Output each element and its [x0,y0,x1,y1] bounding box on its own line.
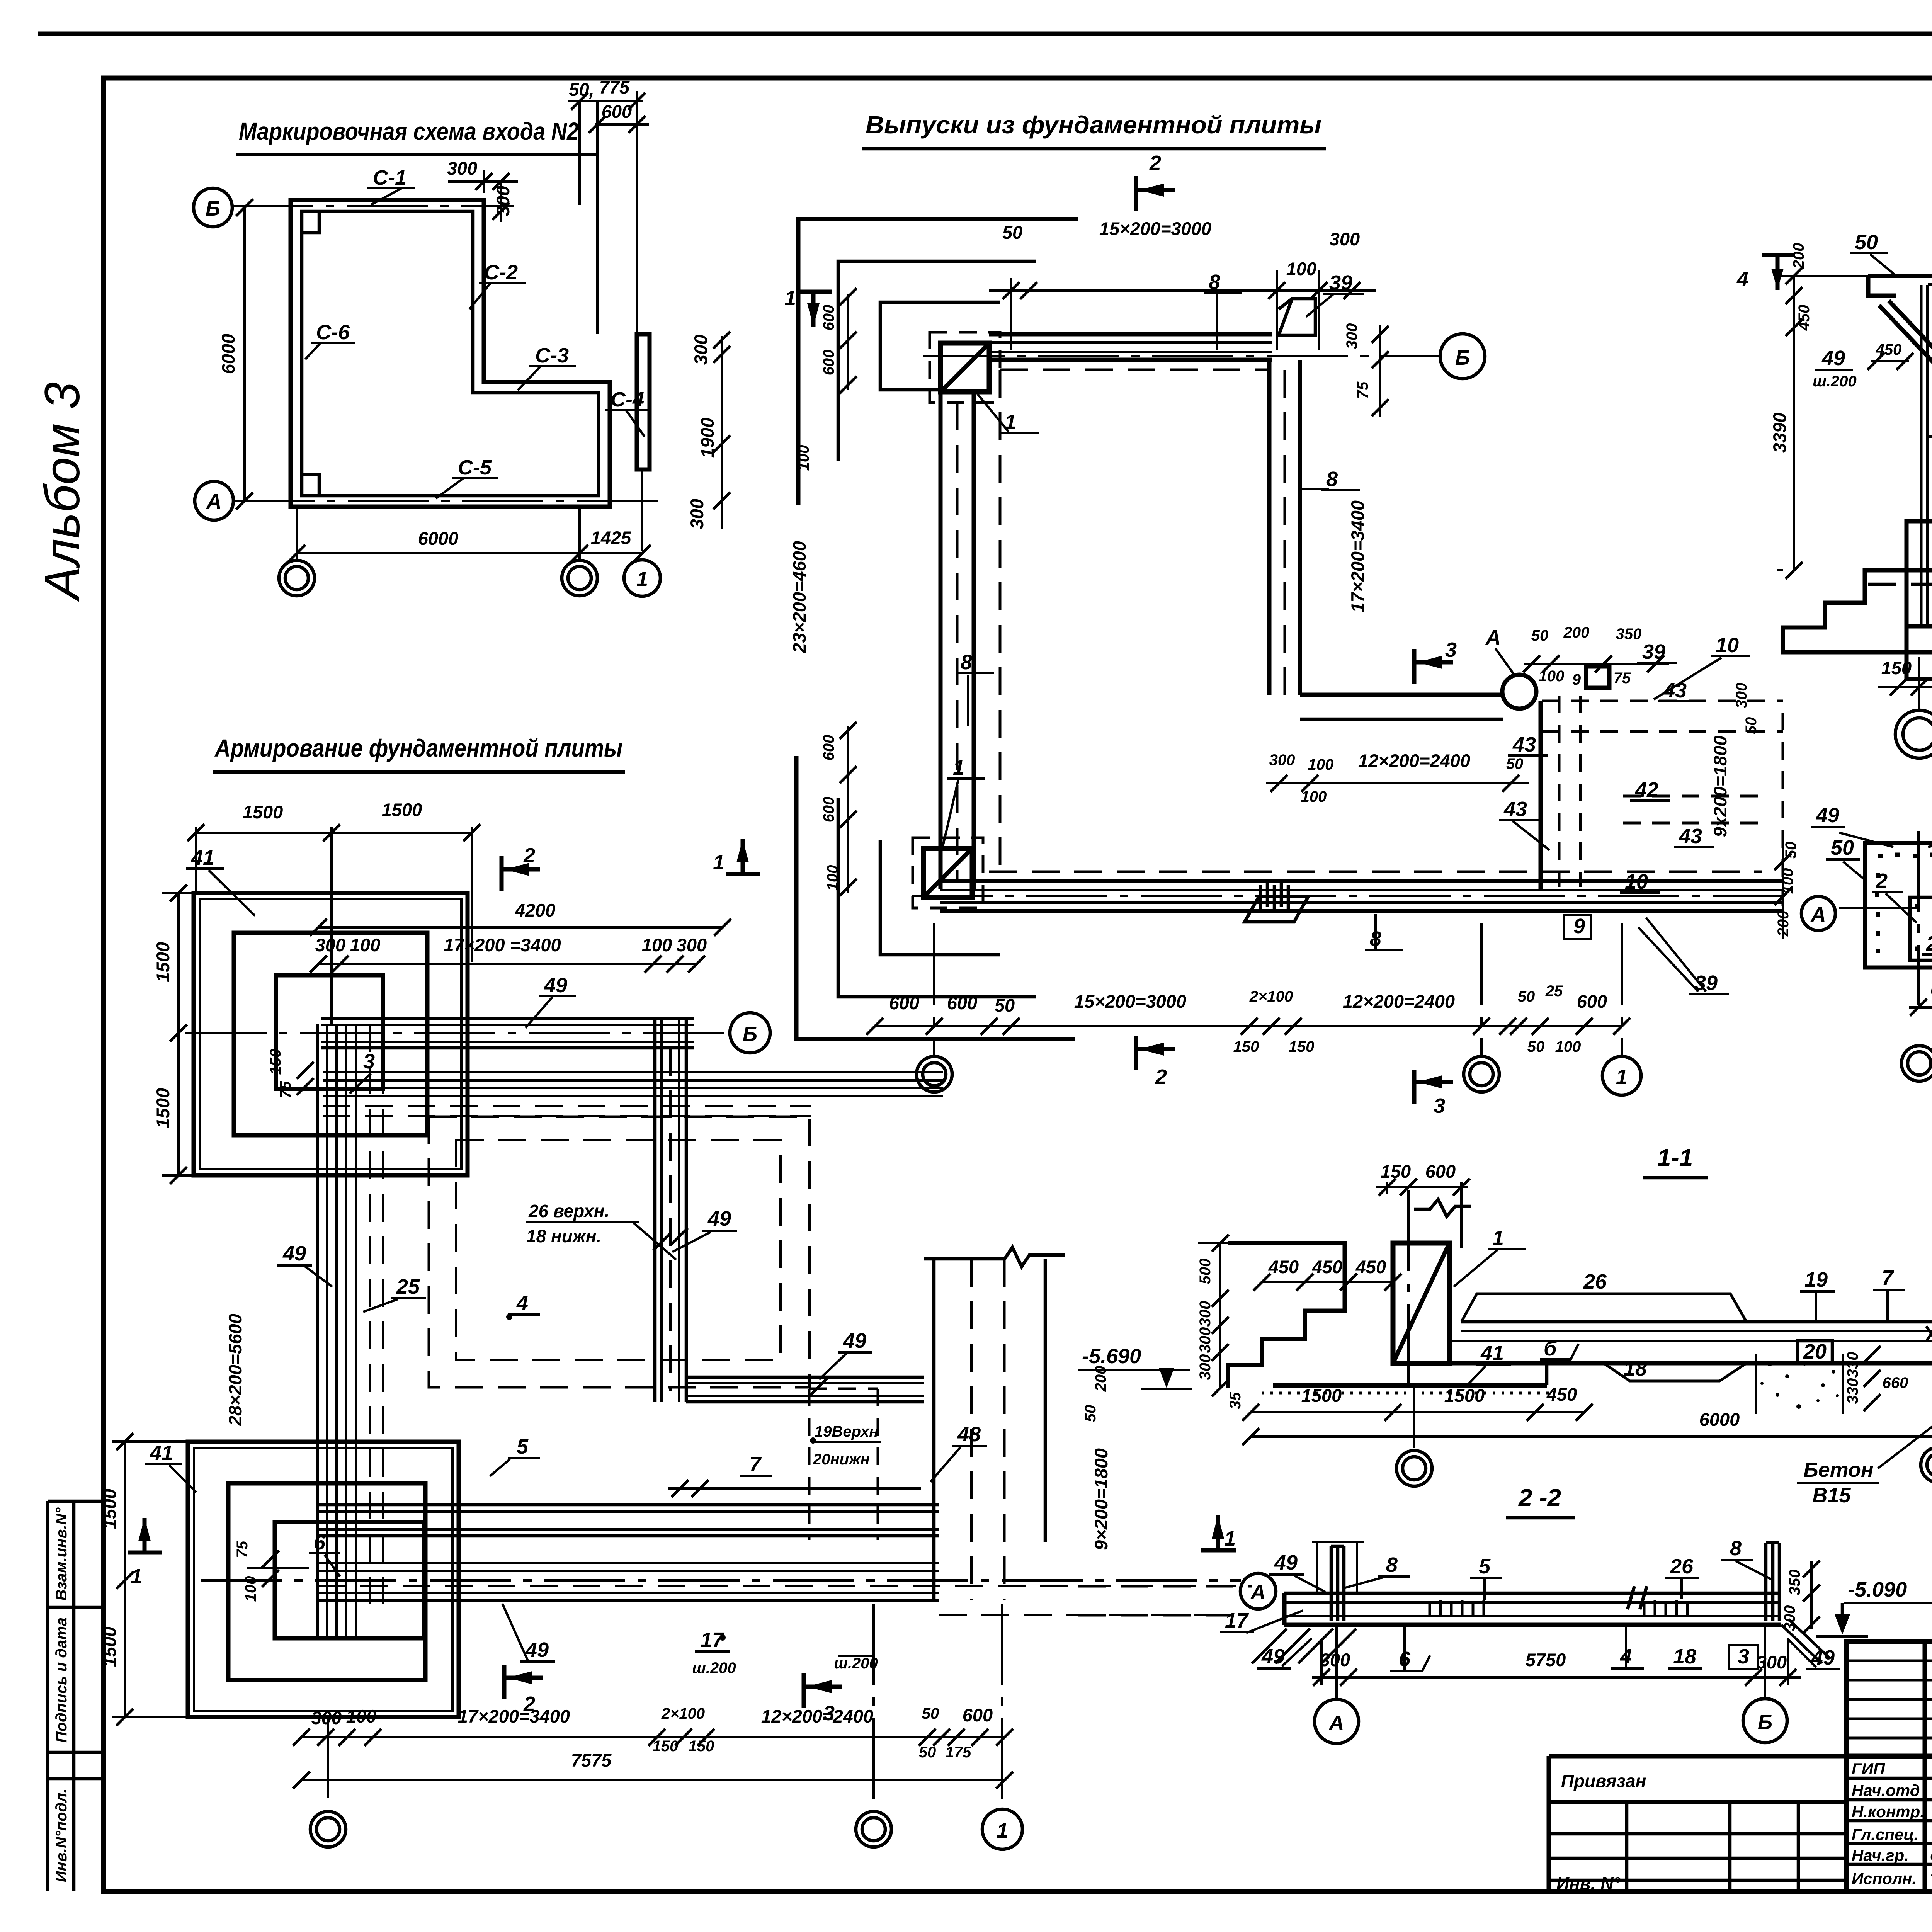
svg-text:50: 50 [922,1705,939,1722]
svg-text:49: 49 [1821,347,1845,370]
axis А horizontal [201,1579,1241,1582]
svg-text:75: 75 [234,1541,251,1558]
svg-text:1425: 1425 [591,527,631,548]
svg-text:50: 50 [1082,1405,1099,1422]
svg-text:300: 300 [1320,1650,1350,1670]
svg-text:75: 75 [1614,670,1631,687]
svg-text:350: 350 [1616,626,1642,643]
svg-text:1: 1 [953,756,964,779]
svg-text:300: 300 [1733,683,1750,709]
label 20 box [1798,1341,1832,1363]
upper small rows [1847,1660,1932,1662]
svg-text:С-5: С-5 [458,456,492,479]
svg-text:50: 50 [995,995,1015,1015]
axis circle А [195,481,233,520]
svg-text:1: 1 [1616,1065,1628,1088]
left dims 1500 1500 bottom [124,1442,126,1717]
bottom dims [1909,1006,1932,1009]
svg-text:49: 49 [525,1638,549,1662]
svg-text:26 верхн.: 26 верхн. [528,1201,609,1221]
svg-text:450: 450 [1355,1257,1386,1277]
svg-text:А: А [1485,626,1501,649]
mesh vertical rebars [316,1024,319,1636]
svg-text:Б: Б [743,1022,757,1046]
bottom axis circle [1918,657,1920,710]
svg-text:75: 75 [277,1081,294,1098]
svg-text:А: А [206,490,222,513]
svg-text:43: 43 [1503,798,1527,821]
svg-text:300: 300 [1197,1301,1214,1327]
svg-text:Нач.гр.: Нач.гр. [1852,1846,1909,1864]
svg-text:50: 50 [1506,755,1524,772]
left dim 6000 [243,207,246,501]
svg-text:100: 100 [795,445,812,471]
bottom axis circles [279,560,315,596]
step wall band [686,1376,924,1379]
svg-text:18 нижн.: 18 нижн. [526,1226,601,1246]
svg-text:50,: 50, [569,79,594,100]
section flag 1 left [128,1518,162,1553]
right wall of upper square [1267,360,1272,695]
svg-text:25: 25 [396,1275,420,1298]
svg-text:Подпись и дата: Подпись и дата [53,1617,70,1743]
svg-text:Маркировочная схема входа N2: Маркировочная схема входа N2 [239,117,579,145]
узел А circle on plan2 [1502,675,1536,709]
svg-text:100: 100 [824,865,841,891]
wall inner contour [302,211,599,496]
svg-text:б: б [1544,1337,1557,1360]
axes to circles [1335,1625,1338,1700]
svg-text:49: 49 [843,1329,866,1352]
svg-text:50: 50 [1831,836,1854,859]
svg-text:28×200=5600: 28×200=5600 [225,1314,245,1426]
svg-text:100: 100 [1555,1038,1581,1055]
TITLE BLOCK (штамп) [1847,1641,1932,1891]
left wall verticals [939,392,943,889]
svg-text:300: 300 [1330,229,1360,249]
svg-text:9: 9 [1572,671,1581,688]
wall step to detail zone [1300,693,1503,697]
rebar hook ticks [1430,1600,1484,1617]
svg-text:500: 500 [1197,1259,1214,1284]
svg-text:Н.контр.: Н.контр. [1852,1803,1925,1821]
vertical axis lines to bottom circles [296,507,298,560]
axis circle А left [1240,1573,1276,1609]
thick mid divider [1847,1754,1932,1759]
hatch below left end [1252,1629,1356,1663]
svg-text:350: 350 [1786,1570,1803,1595]
svg-text:8: 8 [961,651,972,674]
svg-text:12×200=2400: 12×200=2400 [1358,750,1470,771]
svg-text:150: 150 [653,1738,679,1755]
axis circle Б right [1440,334,1485,379]
svg-text:300: 300 [677,935,707,955]
svg-text:А: А [1328,1711,1344,1735]
svg-text:300: 300 [1269,752,1295,769]
axis circles below 1-1 [1413,1388,1415,1448]
bottom dims [1312,1676,1801,1679]
bottom axis circles [310,1811,346,1847]
svg-text:300: 300 [1197,1354,1214,1380]
wall C-1 outer contour [291,200,610,507]
break marks mid slab [1628,1586,1647,1609]
sloped bars 49 [1879,305,1932,365]
svg-text:Взам.инв.N°: Взам.инв.N° [53,1507,70,1601]
bottom axis circle [1901,1046,1932,1081]
svg-text:1500: 1500 [99,1489,120,1529]
right end hatch [1781,1619,1830,1663]
column block 1 (bottom) [923,849,972,897]
svg-text:7: 7 [749,1453,762,1476]
section flag 3 right [1414,649,1453,684]
bottom dim line 6000 / 1425 [297,552,642,554]
svg-text:100: 100 [1286,259,1316,279]
svg-text:100: 100 [642,935,672,955]
3d hatch box bottom [1245,896,1308,922]
section flag 2 bottom [1136,1036,1175,1070]
svg-text:26: 26 [1670,1555,1694,1578]
svg-text:43: 43 [1679,825,1702,848]
svg-text:Инв. N°: Инв. N° [1556,1873,1621,1893]
section flag 1 top [797,292,832,327]
svg-text:А: А [1250,1581,1266,1604]
svg-text:18: 18 [1673,1645,1696,1668]
svg-text:ш.200: ш.200 [692,1660,736,1677]
svg-text:600: 600 [820,797,837,823]
svg-text:3: 3 [1445,638,1457,662]
axis Б horizontal [185,1032,728,1034]
svg-text:600: 600 [1577,991,1607,1012]
svg-text:600: 600 [947,993,977,1013]
rebar dots [1877,855,1932,953]
svg-text:21: 21 [1926,932,1932,955]
svg-text:5750: 5750 [1526,1650,1566,1670]
svg-text:100: 100 [1308,756,1334,773]
right upstand bar 8 [1766,1543,1779,1621]
break squiggle [1414,1199,1471,1216]
axis circle 1 [624,560,660,596]
svg-text:25: 25 [1545,983,1563,1000]
right wall verticals lower [932,1259,936,1600]
svg-text:49: 49 [1816,804,1839,827]
svg-text:6000: 6000 [418,528,459,549]
svg-text:50: 50 [919,1744,936,1761]
svg-text:Привязан: Привязан [1561,1771,1646,1791]
hatch ticks on bottom wall [1260,883,1288,909]
svg-text:Смольянинова: Смольянинова [1930,1849,1932,1864]
svg-text:75: 75 [1354,381,1371,399]
vertical rebars [1920,285,1923,626]
svg-text:8: 8 [1326,468,1338,491]
svg-text:19: 19 [1804,1268,1828,1291]
top outer sheet line [38,32,1932,36]
svg-text:-5.090: -5.090 [1848,1578,1907,1601]
svg-text:10: 10 [1716,634,1739,657]
svg-text:150: 150 [689,1738,714,1755]
svg-text:300: 300 [690,335,711,365]
svg-text:С-1: С-1 [373,166,406,189]
interior notch top-left [302,211,319,496]
svg-text:600: 600 [820,350,837,376]
svg-text:9×200=1800: 9×200=1800 [1091,1448,1111,1550]
svg-text:330: 330 [1844,1352,1861,1378]
svg-text:600: 600 [963,1705,993,1725]
svg-text:50: 50 [1527,1038,1545,1055]
svg-text:330: 330 [1844,1378,1861,1404]
section flag 2 top [1136,176,1175,211]
mesh horizontal rebars [323,1071,943,1073]
svg-text:5: 5 [1479,1555,1491,1578]
svg-text:3: 3 [1738,1645,1749,1668]
wall bottom lines [1897,568,1932,573]
svg-text:Инв.N°подл.: Инв.N°подл. [53,1789,70,1883]
svg-text:1: 1 [1492,1226,1504,1250]
axis circle Б bottom [1743,1699,1787,1743]
svg-text:15×200=3000: 15×200=3000 [1074,991,1186,1012]
svg-text:23×200=4600: 23×200=4600 [789,541,810,653]
svg-text:41: 41 [1480,1342,1504,1365]
svg-text:Б: Б [1758,1711,1772,1734]
svg-text:600: 600 [602,101,632,122]
svg-text:4: 4 [1736,267,1748,291]
svg-text:17: 17 [1225,1609,1249,1632]
svg-text:6000: 6000 [218,334,238,374]
svg-text:12×200=2400: 12×200=2400 [1343,991,1455,1012]
top wall band horizontals [321,1017,694,1020]
svg-text:6000: 6000 [1699,1409,1740,1430]
svg-text:Выпуски из фундаментной плиты: Выпуски из фундаментной плиты [866,111,1321,139]
svg-text:100: 100 [350,935,380,955]
svg-text:450: 450 [1876,341,1902,358]
svg-text:300: 300 [1781,1605,1798,1631]
svg-text:49: 49 [707,1207,731,1230]
svg-text:26: 26 [1583,1270,1607,1293]
svg-text:1: 1 [636,568,648,591]
axis circles [1801,896,1835,930]
svg-text:2: 2 [523,844,535,867]
svg-text:300: 300 [447,158,477,179]
svg-text:Исполн.: Исполн. [1852,1869,1917,1888]
svg-text:50: 50 [1518,988,1535,1005]
svg-text:С-4: С-4 [611,388,644,411]
svg-text:Гл.спец.: Гл.спец. [1852,1825,1918,1844]
title block outline [1847,1641,1932,1891]
section flag 1 up [1201,1515,1236,1550]
svg-text:8: 8 [1730,1537,1742,1560]
axis circle А bottom [1315,1699,1359,1743]
break line top of wall strip [924,1247,1065,1267]
small table left of title block [1549,1756,1847,1893]
svg-text:5: 5 [517,1435,529,1458]
svg-text:300: 300 [1344,323,1361,349]
svg-text:1: 1 [131,1565,142,1588]
svg-text:ш.200: ш.200 [834,1655,878,1672]
svg-text:3: 3 [823,1702,835,1725]
svg-text:100: 100 [1301,788,1327,805]
svg-text:300: 300 [315,935,345,955]
detail zone wall vertical [1539,701,1543,889]
svg-text:600: 600 [1425,1161,1456,1182]
wall top line [1868,274,1932,278]
slab corner rects top-left [194,893,468,1175]
svg-text:2: 2 [1876,869,1888,893]
svg-text:43: 43 [1663,679,1687,702]
svg-text:1500: 1500 [382,799,422,820]
section flag 3 bottom [1414,1070,1453,1104]
svg-text:2 -2: 2 -2 [1518,1484,1561,1512]
dashed bent rebar rects [429,1117,810,1387]
svg-text:17×200=3400: 17×200=3400 [1347,500,1368,612]
svg-text:600: 600 [820,735,837,761]
base plate [1273,1383,1547,1388]
svg-text:3390: 3390 [1769,413,1790,453]
svg-text:1500: 1500 [1301,1385,1342,1406]
column with diagonal [1393,1243,1449,1363]
svg-text:17×200=3400: 17×200=3400 [458,1706,570,1726]
svg-text:Альбом 3: Альбом 3 [35,382,90,602]
svg-text:660: 660 [1883,1374,1908,1391]
axis Б horizontal [923,355,1439,357]
svg-text:300: 300 [1197,1327,1214,1353]
bottom dim row [301,1736,1005,1738]
svg-text:50: 50 [1782,842,1799,859]
left upstand bar 8 [1331,1546,1344,1621]
svg-text:1900: 1900 [697,418,718,458]
column block 1 (top) [940,343,989,392]
svg-text:1: 1 [997,1819,1008,1842]
svg-text:-5.690: -5.690 [1082,1345,1141,1368]
slab lines [1284,1592,1781,1595]
svg-text:300: 300 [493,186,513,216]
svg-text:Армирование фундаментной плит: Армирование фундаментной плиты [214,734,622,762]
svg-text:1500: 1500 [153,1088,173,1129]
svg-text:175: 175 [946,1744,971,1761]
svg-text:17×200 =3400: 17×200 =3400 [444,935,561,955]
svg-text:1: 1 [1224,1527,1236,1550]
svg-text:450: 450 [1796,305,1813,331]
svg-text:39: 39 [1642,640,1665,663]
svg-text:41: 41 [150,1441,173,1464]
svg-text:Тарасенкова: Тарасенкова [1930,1871,1932,1887]
top wall horizontals [989,332,1272,337]
svg-text:8: 8 [1209,270,1220,294]
svg-text:1500: 1500 [243,802,283,822]
section flag 1 bottom left [726,839,760,874]
svg-text:1500: 1500 [1444,1385,1485,1406]
svg-text:200: 200 [1563,624,1590,641]
svg-text:Нач.отд: Нач.отд [1852,1781,1920,1799]
svg-text:42: 42 [1635,778,1658,801]
svg-text:20нижн: 20нижн [813,1451,870,1468]
svg-text:В15: В15 [1812,1484,1851,1507]
svg-text:35: 35 [1227,1392,1244,1409]
right side dims 300 1900 300 [721,336,723,529]
svg-text:С-6: С-6 [316,321,350,344]
svg-text:150: 150 [1289,1038,1315,1055]
svg-text:49: 49 [1274,1551,1298,1574]
svg-text:4: 4 [516,1291,528,1315]
svg-text:10: 10 [1625,870,1648,893]
svg-text:12×200=2400: 12×200=2400 [761,1706,873,1726]
svg-text:300: 300 [1757,1652,1787,1672]
svg-text:Бетон: Бетон [1803,1458,1873,1481]
axis through beam [1839,907,1932,909]
inner dim line above bottom wall [1266,782,1529,784]
svg-text:4200: 4200 [515,900,556,920]
svg-text:2×100: 2×100 [1249,988,1293,1005]
small solid bar 9 [1586,667,1609,688]
svg-text:150: 150 [1233,1038,1259,1055]
svg-text:ш.200: ш.200 [1813,373,1856,390]
buried pier block [1906,521,1932,626]
section flag 3 bottom [804,1673,842,1708]
svg-text:450: 450 [1268,1257,1299,1277]
section flag 2 top [502,856,540,891]
svg-text:9: 9 [1573,915,1585,938]
svg-text:1500: 1500 [153,942,173,983]
left dashes to А axis [1078,1585,1252,1588]
bottom wall band horizontals [318,1503,939,1507]
svg-text:2: 2 [523,1692,535,1716]
svg-text:С-2: С-2 [484,261,518,284]
corner 3d hatch box top right [1279,299,1315,335]
vertical axes to bottom circles [933,923,935,1056]
right wall band verticals [653,1019,657,1402]
svg-text:600: 600 [1930,980,1932,1000]
left block outer [1865,843,1932,968]
axis А line [233,500,668,502]
top dim row of plan2 [989,289,1376,292]
svg-text:15×200=3000: 15×200=3000 [1099,218,1211,239]
svg-text:300: 300 [311,1708,342,1728]
bottom dim row [1878,686,1932,688]
svg-text:2: 2 [1149,151,1161,175]
bottom mesh horizontals [318,1562,939,1564]
rebar 18 trapezoid below [1604,1363,1747,1381]
left notch [1868,276,1896,296]
svg-text:200: 200 [1790,243,1807,269]
detail zone dashed outlines [1558,696,1561,887]
svg-text:600: 600 [889,993,919,1013]
x-marks on slab [1926,1326,1932,1342]
slab lines [1461,1320,1932,1324]
bottom-left stepped corner [796,756,1075,1039]
svg-text:150: 150 [1881,658,1912,678]
svg-text:41: 41 [191,846,214,869]
svg-text:9х200=1800: 9х200=1800 [1710,736,1730,837]
svg-text:100: 100 [1539,668,1565,685]
svg-text:775: 775 [599,77,630,97]
svg-text:48: 48 [957,1423,981,1446]
signature row lines [1847,1777,1932,1780]
top dims 1500 1500 [196,832,472,834]
svg-text:1500: 1500 [99,1627,120,1667]
svg-text:1: 1 [784,287,796,310]
axis Б line [232,205,514,207]
svg-text:150: 150 [267,1049,284,1075]
concrete stipple patches [1760,1361,1932,1409]
svg-text:3: 3 [363,1050,375,1073]
axis circle Б [730,1013,770,1053]
bottom wall of plan2 [940,879,1783,883]
svg-text:43: 43 [1512,733,1536,756]
section flag 2 bottom [504,1665,543,1699]
svg-text:3: 3 [1434,1094,1445,1117]
svg-text:2×100: 2×100 [661,1705,705,1722]
svg-text:49: 49 [544,974,567,997]
detail dims 50 200 350 [1524,663,1669,665]
bottom axis circles of plan2 [917,1056,952,1092]
